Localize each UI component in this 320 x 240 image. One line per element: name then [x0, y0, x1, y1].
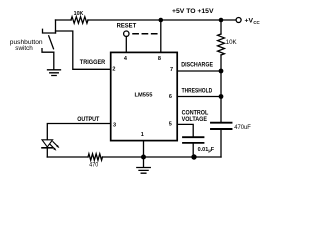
svg-text:CONTROL: CONTROL [182, 111, 209, 117]
svg-text:1: 1 [141, 132, 144, 138]
svg-text:switch: switch [15, 45, 33, 52]
svg-text:VOLTAGE: VOLTAGE [182, 117, 207, 123]
svg-text:+V: +V [245, 18, 254, 25]
svg-text:6: 6 [169, 94, 172, 100]
svg-text:8: 8 [158, 56, 161, 62]
svg-text:OUTPUT: OUTPUT [77, 117, 99, 123]
svg-text:RESET: RESET [117, 23, 137, 29]
svg-text:THRESHOLD: THRESHOLD [182, 88, 213, 94]
svg-text:TRIGGER: TRIGGER [80, 60, 106, 66]
svg-text:10K: 10K [74, 11, 84, 17]
svg-text:2: 2 [112, 66, 115, 72]
svg-text:5: 5 [169, 122, 172, 128]
svg-text:10K: 10K [226, 40, 237, 46]
svg-text:7: 7 [170, 67, 173, 73]
svg-text:0.01µF: 0.01µF [198, 147, 215, 153]
svg-text:3: 3 [113, 122, 116, 128]
svg-text:DISCHARGE: DISCHARGE [181, 63, 213, 69]
svg-text:470: 470 [89, 163, 99, 169]
svg-text:LM555: LM555 [135, 92, 154, 98]
svg-text:470uF: 470uF [234, 125, 251, 131]
svg-text:+5V TO +15V: +5V TO +15V [172, 8, 214, 15]
svg-text:CC: CC [253, 20, 260, 25]
